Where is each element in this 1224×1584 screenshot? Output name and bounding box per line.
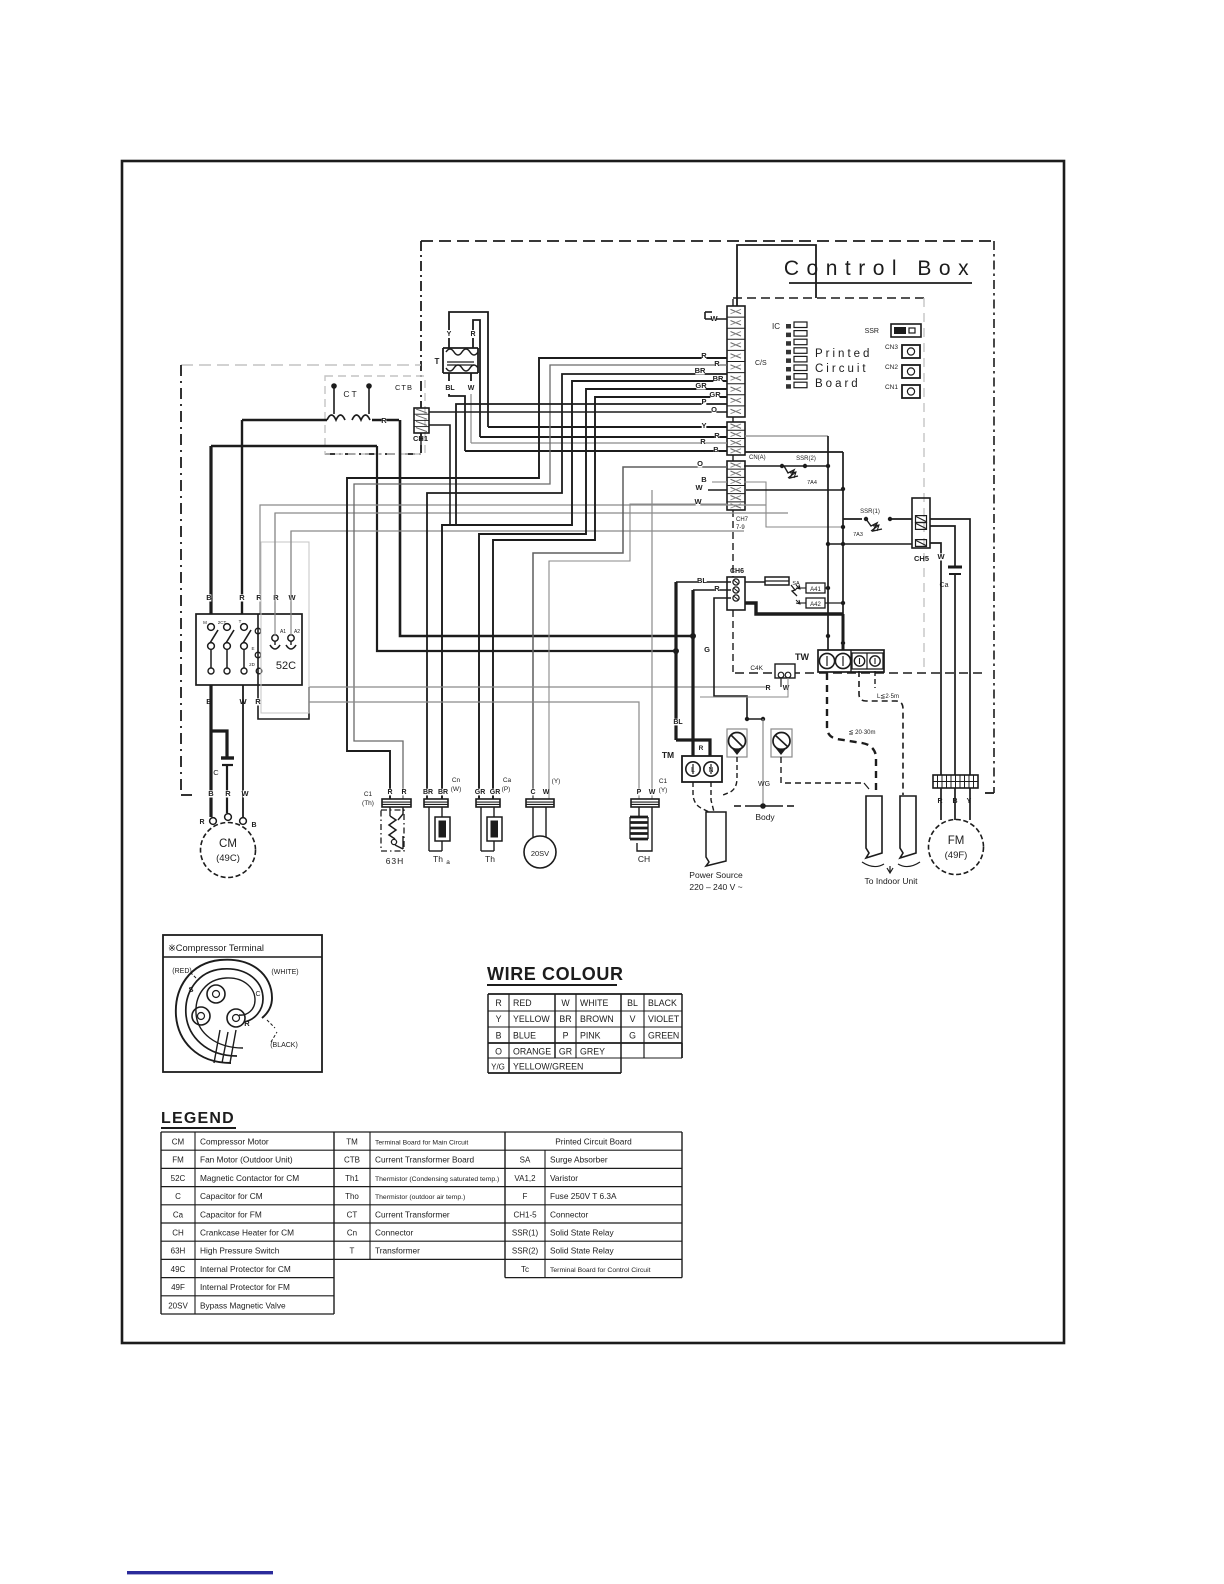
svg-text:Circuit: Circuit	[815, 363, 869, 375]
grey box around 52C aux	[261, 542, 309, 713]
svg-text:TM: TM	[346, 1138, 358, 1147]
svg-text:To Indoor Unit: To Indoor Unit	[865, 876, 919, 886]
main vertical wire to TW terminal 2	[842, 452, 844, 614]
svg-text:B: B	[206, 593, 212, 602]
svg-text:FM: FM	[948, 835, 965, 847]
PCB connector strip CN lower	[727, 461, 745, 510]
svg-text:CH7: CH7	[736, 517, 749, 523]
svg-text:Thermistor (outdoor air temp.): Thermistor (outdoor air temp.)	[375, 1194, 465, 1201]
svg-text:R: R	[255, 697, 261, 706]
svg-text:G: G	[704, 645, 710, 654]
solid state relay SSR2 symbol	[744, 465, 828, 467]
svg-text:20SV: 20SV	[168, 1301, 188, 1310]
svg-text:Solid State Relay: Solid State Relay	[550, 1246, 614, 1256]
svg-text:Printed: Printed	[815, 348, 872, 360]
wire O to valve 20SV left	[533, 467, 727, 799]
connector bar for thermistor Tho	[476, 799, 500, 807]
svg-text:C: C	[530, 789, 535, 796]
svg-text:W: W	[561, 998, 570, 1008]
svg-text:CTB: CTB	[395, 383, 413, 392]
connector bar for valve 20SV	[526, 799, 554, 807]
wire R down to terminal TM L	[691, 590, 694, 757]
svg-text:Capacitor for FM: Capacitor for FM	[200, 1209, 262, 1219]
wire flag to indoor unit 1	[866, 796, 882, 858]
svg-text:Power Source: Power Source	[689, 870, 743, 880]
52C main contacts	[208, 624, 215, 631]
svg-text:(Th): (Th)	[362, 800, 374, 807]
svg-text:PINK: PINK	[580, 1030, 601, 1040]
svg-text:R: R	[765, 685, 770, 692]
outdoor unit grey dashed boundary	[181, 364, 421, 366]
dashed wire screw1 to power source	[723, 757, 737, 795]
wire R transformer to strip2	[480, 436, 727, 438]
CM terminal labels	[209, 790, 214, 797]
wire B transformer to strip2	[465, 450, 727, 452]
svg-text:BLUE: BLUE	[513, 1030, 536, 1040]
svg-text:CH1-5: CH1-5	[513, 1210, 537, 1219]
svg-text:CH: CH	[638, 854, 650, 864]
svg-text:P: P	[701, 397, 706, 406]
wire 52C to CM phase W	[242, 685, 244, 817]
svg-text:L: L	[691, 767, 695, 774]
svg-text:Y/G: Y/G	[491, 1063, 505, 1072]
svg-text:Y: Y	[701, 421, 706, 430]
wire to CH5 lower pin	[828, 543, 912, 545]
svg-text:Tho: Tho	[345, 1192, 359, 1201]
svg-text:Compressor Motor: Compressor Motor	[200, 1137, 269, 1147]
wire R to 63H right	[354, 365, 727, 799]
svg-text:SSR(2): SSR(2)	[796, 456, 816, 462]
svg-text:Internal Protector for CM: Internal Protector for CM	[200, 1264, 291, 1274]
svg-text:GR: GR	[559, 1047, 572, 1057]
svg-text:7-9: 7-9	[736, 525, 745, 531]
52C wires to top	[274, 513, 276, 635]
svg-text:N: N	[708, 767, 713, 774]
svg-text:VIOLET: VIOLET	[648, 1014, 680, 1024]
svg-text:A1: A1	[280, 629, 286, 635]
svg-text:T: T	[239, 619, 242, 624]
svg-text:(W): (W)	[451, 786, 461, 793]
svg-text:63H: 63H	[386, 856, 405, 866]
52C coil A1 A2	[272, 635, 278, 641]
svg-text:Control Box: Control Box	[784, 257, 976, 280]
svg-text:L≦2·5m: L≦2·5m	[877, 694, 899, 700]
dashed wire TW3 to indoor unit	[859, 671, 903, 795]
control box dash-dot left boundary upper	[420, 241, 422, 408]
svg-text:O: O	[697, 459, 703, 468]
svg-text:49F: 49F	[171, 1283, 185, 1292]
wire grey bus to 52C R3	[275, 513, 788, 614]
svg-text:CN2: CN2	[885, 364, 898, 371]
connector bar for thermistor Th1	[424, 799, 448, 807]
wire W loop over PCB top	[705, 318, 727, 320]
wire contactor 52C column B	[209, 446, 212, 614]
svg-text:CH6: CH6	[730, 568, 744, 575]
svg-text:W: W	[710, 314, 718, 323]
svg-text:C: C	[213, 768, 219, 777]
svg-text:YELLOW/GREEN: YELLOW/GREEN	[513, 1062, 583, 1072]
svg-text:R: R	[199, 819, 204, 826]
svg-text:49C: 49C	[171, 1265, 186, 1274]
body earth symbol	[745, 805, 783, 807]
wire O from CN via CH1	[429, 411, 727, 413]
connector bar for FM	[933, 775, 978, 788]
svg-text:BL: BL	[697, 576, 707, 585]
svg-text:Y: Y	[447, 331, 452, 338]
wire contactor 52C column R	[241, 420, 243, 614]
wire thick CH6 to terminal TW2	[745, 603, 843, 614]
svg-text:Crankcase Heater for CM: Crankcase Heater for CM	[200, 1228, 294, 1238]
svg-text:R: R	[244, 1019, 250, 1028]
svg-text:R: R	[700, 437, 706, 446]
svg-text:GR: GR	[695, 381, 707, 390]
svg-text:BR: BR	[559, 1014, 571, 1024]
svg-text:WG: WG	[758, 781, 770, 788]
svg-text:CM: CM	[172, 1138, 185, 1147]
svg-text:BR: BR	[423, 789, 433, 796]
svg-text:B: B	[496, 1030, 502, 1040]
svg-text:YELLOW: YELLOW	[513, 1014, 550, 1024]
svg-text:a: a	[446, 859, 450, 866]
svg-text:(49F): (49F)	[945, 850, 968, 861]
svg-text:A2: A2	[294, 629, 300, 635]
svg-text:63H: 63H	[171, 1247, 186, 1256]
wire BR to thermistor Th1 right	[442, 381, 727, 799]
wire G to body earth	[745, 717, 749, 721]
svg-text:(RED): (RED)	[172, 968, 191, 975]
wire BR to thermistor Th1 left	[427, 374, 727, 799]
svg-text:Connector: Connector	[375, 1228, 414, 1238]
svg-text:Connector: Connector	[550, 1209, 589, 1219]
svg-text:W: W	[783, 685, 790, 692]
svg-text:R: R	[225, 789, 231, 798]
wire BL down to terminal TM N	[674, 582, 677, 740]
connector CH6	[727, 577, 745, 610]
svg-text:2D: 2D	[249, 662, 256, 667]
wire CH5 to FM Y	[930, 519, 970, 775]
svg-text:BR: BR	[695, 366, 706, 375]
svg-text:Terminal Board for Control Cir: Terminal Board for Control Circuit	[550, 1267, 651, 1274]
wire CH1 pin 2	[429, 425, 450, 525]
wire R grey transformer to strip2	[471, 442, 727, 444]
svg-text:CH5: CH5	[914, 554, 929, 563]
svg-text:CN(A): CN(A)	[749, 455, 766, 461]
svg-text:GREY: GREY	[580, 1047, 605, 1057]
wire CH5 to FM W	[930, 543, 941, 775]
svg-text:C/S: C/S	[755, 360, 767, 367]
svg-text:W: W	[288, 593, 296, 602]
svg-text:CM: CM	[219, 838, 237, 850]
svg-text:LEGEND: LEGEND	[161, 1110, 235, 1127]
wire grey bus to 52C R2	[260, 505, 766, 614]
bypass magnetic valve 20SV	[532, 807, 534, 837]
wire grey bus to 52C W	[291, 531, 744, 614]
printed circuit board dashed outline	[733, 297, 924, 299]
fuse F on PCB	[745, 581, 765, 583]
svg-text:Magnetic Contactor for CM: Magnetic Contactor for CM	[200, 1173, 299, 1183]
svg-text:52C: 52C	[276, 660, 296, 672]
svg-text:R: R	[239, 593, 245, 602]
svg-text:W: W	[649, 789, 656, 796]
power source flag connector	[706, 812, 726, 866]
52C auxiliary contacts	[255, 628, 261, 634]
svg-text:2CT: 2CT	[218, 620, 227, 625]
svg-text:SSR(1): SSR(1)	[512, 1229, 539, 1238]
svg-text:CT: CT	[343, 389, 358, 399]
svg-text:Th: Th	[433, 854, 443, 864]
svg-text:GREEN: GREEN	[648, 1030, 679, 1040]
brace To Indoor Unit	[862, 862, 920, 867]
ground screw terminal 1	[727, 729, 747, 757]
wire R to CH6	[693, 589, 731, 591]
svg-text:Tc: Tc	[521, 1265, 529, 1274]
svg-text:W: W	[695, 483, 703, 492]
dashed wire TW1 to indoor unit	[827, 673, 876, 795]
svg-text:Th1: Th1	[345, 1174, 359, 1183]
svg-text:(BLACK): (BLACK)	[270, 1042, 298, 1049]
dashed wire TW4	[874, 671, 876, 688]
svg-text:Transformer: Transformer	[375, 1246, 420, 1256]
svg-text:WIRE COLOUR: WIRE COLOUR	[487, 964, 624, 984]
ground screw terminal 2	[771, 729, 792, 757]
svg-text:Ca: Ca	[940, 582, 949, 589]
svg-text:Internal Protector for FM: Internal Protector for FM	[200, 1282, 290, 1292]
control box dashed top boundary	[421, 240, 994, 242]
svg-text:R: R	[495, 998, 501, 1008]
wire CH5 through capacitor Ca	[930, 526, 955, 566]
svg-text:(49C): (49C)	[216, 853, 240, 864]
crankcase heater CH	[638, 807, 640, 816]
main vertical wire to TW terminal 1	[827, 436, 829, 652]
svg-text:GR: GR	[475, 789, 486, 796]
svg-text:52C: 52C	[171, 1174, 186, 1183]
svg-text:≦ 20·30m: ≦ 20·30m	[848, 730, 875, 736]
wire CH1 pin bottom stub	[420, 433, 422, 445]
svg-text:Current Transformer: Current Transformer	[375, 1209, 450, 1219]
svg-text:SSR: SSR	[865, 328, 879, 335]
svg-text:A42: A42	[810, 602, 821, 608]
wire jog to capacitor C	[211, 731, 227, 757]
svg-text:Y: Y	[496, 1014, 502, 1024]
svg-text:(P): (P)	[502, 786, 511, 793]
wire CT line down to TM-L node	[400, 420, 693, 636]
svg-text:P: P	[563, 1030, 569, 1040]
solid state relay SSR1 symbol	[843, 518, 862, 520]
svg-text:BL: BL	[673, 719, 683, 726]
svg-text:F: F	[523, 1192, 528, 1201]
wire 52C aux to grey bus riser	[258, 614, 309, 719]
svg-text:BL: BL	[627, 998, 638, 1008]
wire GR to thermistor Tho right	[493, 397, 727, 799]
compressor terminal inset box	[163, 935, 322, 1072]
svg-text:Ca: Ca	[173, 1210, 184, 1219]
svg-text:IC: IC	[772, 322, 780, 331]
svg-text:G: G	[629, 1030, 636, 1040]
svg-text:V: V	[630, 1014, 636, 1024]
svg-text:B: B	[208, 789, 214, 798]
svg-text:7A4: 7A4	[807, 480, 817, 486]
compressor terminal drawing	[176, 960, 272, 1063]
connector bar for 63H	[382, 799, 411, 807]
svg-text:A41: A41	[810, 587, 821, 593]
svg-text:C4K: C4K	[750, 665, 763, 672]
svg-text:R: R	[701, 351, 707, 360]
svg-text:E: E	[251, 646, 254, 651]
wire Y transformer to strip2	[488, 426, 727, 428]
svg-text:T: T	[435, 357, 440, 366]
svg-text:TM: TM	[662, 750, 674, 760]
svg-text:TW: TW	[795, 652, 809, 662]
page outer border frame	[122, 161, 1064, 1343]
varistor A42 box	[806, 598, 825, 608]
wire colour table	[488, 993, 682, 995]
svg-text:R: R	[699, 745, 704, 752]
svg-text:SSR(1): SSR(1)	[860, 509, 880, 515]
svg-text:Varistor: Varistor	[550, 1173, 578, 1183]
svg-text:Fan Motor (Outdoor Unit): Fan Motor (Outdoor Unit)	[200, 1155, 293, 1165]
svg-text:BR: BR	[713, 374, 724, 383]
svg-text:Current Transformer Board: Current Transformer Board	[375, 1155, 475, 1165]
wire flag to indoor unit 2	[900, 796, 916, 858]
svg-text:BLACK: BLACK	[648, 998, 677, 1008]
capacitor C for CM	[221, 756, 234, 759]
compressor motor CM circle	[201, 823, 256, 878]
svg-text:VA1,2: VA1,2	[514, 1174, 536, 1183]
svg-text:FM: FM	[172, 1156, 184, 1165]
outdoor unit dash-dot left boundary	[180, 365, 182, 795]
PCB connector strip CN middle	[727, 422, 745, 455]
wire R to 63H left	[347, 358, 727, 799]
thermistor Tho	[480, 807, 482, 851]
svg-text:BROWN: BROWN	[580, 1014, 614, 1024]
svg-text:B: B	[251, 822, 256, 829]
svg-text:R: R	[273, 593, 279, 602]
varistor A41 box	[806, 583, 825, 593]
svg-text:C1: C1	[659, 778, 668, 785]
svg-text:CH: CH	[172, 1229, 184, 1238]
high pressure switch 63H	[381, 810, 404, 851]
connector CH1	[414, 408, 429, 433]
svg-text:Th: Th	[485, 854, 495, 864]
svg-text:Bypass Magnetic Valve: Bypass Magnetic Valve	[200, 1300, 286, 1310]
svg-text:Body: Body	[755, 812, 775, 822]
svg-text:Board: Board	[815, 378, 861, 390]
wire strip2 R east to TW1 net	[745, 435, 828, 437]
svg-text:Printed Circuit Board: Printed Circuit Board	[555, 1137, 632, 1147]
svg-text:W: W	[543, 789, 550, 796]
svg-text:WHITE: WHITE	[580, 998, 608, 1008]
svg-text:S: S	[188, 985, 193, 994]
svg-text:R: R	[381, 416, 387, 425]
connector CH5	[912, 498, 930, 548]
svg-text:R: R	[470, 331, 475, 338]
svg-text:SSR(2): SSR(2)	[512, 1247, 539, 1256]
svg-text:High Pressure Switch: High Pressure Switch	[200, 1246, 280, 1256]
svg-text:※Compressor Terminal: ※Compressor Terminal	[168, 943, 264, 953]
svg-text:Fuse 250V T 6.3A: Fuse 250V T 6.3A	[550, 1191, 617, 1201]
svg-text:BL: BL	[445, 385, 455, 392]
current transformer board CTB dashed box	[325, 376, 425, 454]
svg-text:W: W	[937, 552, 945, 561]
svg-text:220 – 240 V ~: 220 – 240 V ~	[689, 882, 742, 892]
svg-text:CN3: CN3	[885, 344, 898, 351]
wire second power line B	[211, 445, 377, 448]
svg-text:B: B	[713, 445, 719, 454]
svg-text:CTB: CTB	[344, 1156, 360, 1165]
terminal block TW	[818, 650, 884, 672]
svg-text:GR: GR	[490, 789, 501, 796]
transformer T	[449, 312, 488, 427]
svg-text:7A3: 7A3	[853, 532, 863, 538]
svg-text:Solid State Relay: Solid State Relay	[550, 1228, 614, 1238]
wire grey P bus to crankcase heater	[309, 702, 639, 799]
52C bottom wire labels	[207, 698, 212, 705]
wire GR to thermistor Tho left	[479, 389, 727, 799]
wire W to valve 20SV right	[549, 504, 727, 799]
current transformer CT	[331, 383, 337, 389]
svg-text:Cn: Cn	[452, 777, 461, 784]
wire W to TW net	[746, 489, 843, 491]
svg-text:CN1: CN1	[885, 384, 898, 391]
svg-text:Thermistor (Condensing saturat: Thermistor (Condensing saturated temp.)	[375, 1176, 499, 1183]
wire grey W bus to crankcase heater	[309, 686, 770, 688]
svg-text:RED: RED	[513, 998, 532, 1008]
svg-text:W: W	[241, 789, 249, 798]
wire BL to CH6	[676, 581, 731, 583]
dashed wires TM to power source	[693, 782, 709, 812]
wire B to SSR net	[744, 482, 843, 527]
svg-text:M: M	[203, 620, 207, 625]
svg-text:R: R	[387, 789, 392, 796]
wire G from CH6	[714, 598, 747, 719]
svg-text:R: R	[714, 584, 720, 593]
control box dash-dot right boundary	[993, 241, 995, 793]
svg-text:Surge Absorber: Surge Absorber	[550, 1155, 608, 1165]
svg-text:(Y): (Y)	[552, 778, 561, 785]
connector bar for crankcase heater CH	[631, 799, 659, 807]
wire P from CN to CH1 column	[456, 404, 727, 525]
PCB connector strip CN upper	[727, 306, 745, 417]
footer blue rule	[127, 1571, 273, 1574]
svg-text:GR: GR	[709, 390, 721, 399]
svg-text:Capacitor for CM: Capacitor for CM	[200, 1191, 263, 1201]
svg-text:O: O	[711, 405, 717, 414]
svg-text:C: C	[255, 991, 260, 998]
svg-text:BR: BR	[438, 789, 448, 796]
CM terminals	[210, 818, 217, 825]
terminal block TM for power	[682, 756, 722, 782]
magnetic contactor 52C box	[196, 614, 302, 685]
svg-text:Cn: Cn	[347, 1229, 357, 1238]
svg-text:(Y): (Y)	[659, 787, 668, 794]
surge absorber SA symbol	[791, 585, 797, 596]
svg-text:O: O	[495, 1047, 502, 1057]
legend table	[161, 1131, 682, 1133]
svg-text:(WHITE): (WHITE)	[271, 969, 298, 976]
wire CT to contactor R	[242, 419, 327, 422]
svg-text:Ca: Ca	[503, 777, 512, 784]
svg-text:Terminal Board for Main Circui: Terminal Board for Main Circuit	[375, 1140, 468, 1147]
svg-text:C1: C1	[364, 791, 373, 798]
svg-text:C: C	[175, 1192, 181, 1201]
svg-text:R: R	[401, 789, 406, 796]
fan motor FM circle	[929, 820, 984, 875]
wire strip2 BL east to TW2 net	[745, 451, 843, 453]
svg-text:SA: SA	[520, 1156, 531, 1165]
svg-text:R: R	[714, 431, 720, 440]
svg-text:P: P	[637, 789, 642, 796]
52C wire labels top	[207, 594, 212, 601]
